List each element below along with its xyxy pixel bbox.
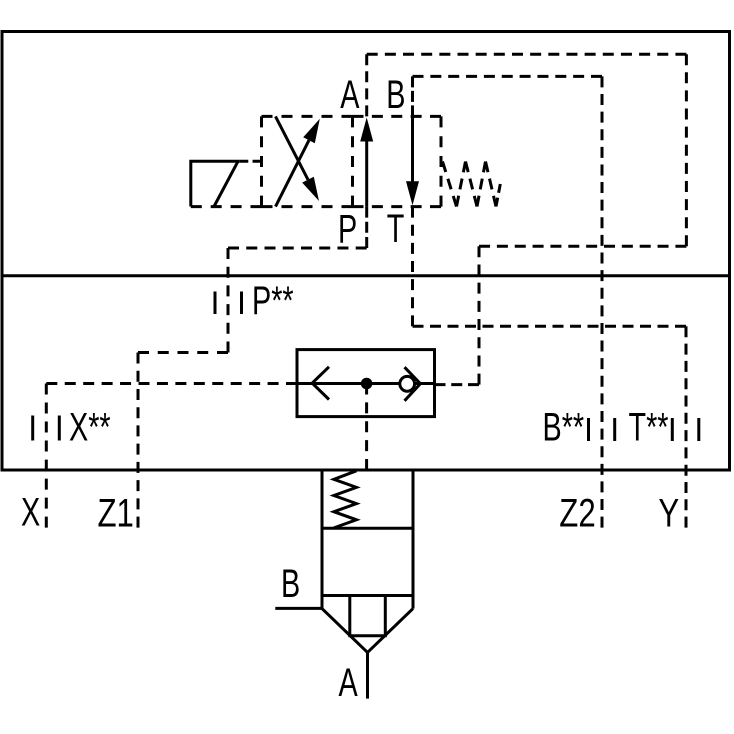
svg-text:T: T <box>387 206 405 251</box>
valve V1 arrow P to A <box>365 141 368 207</box>
port marks P** <box>215 292 242 315</box>
valve V1 arrow B to T <box>411 116 414 181</box>
check valve free-flow arrow <box>312 367 329 400</box>
port marks T** <box>672 418 699 441</box>
pilot line B: port B up, right, down to Z2 <box>413 76 603 527</box>
port marks B** <box>589 418 615 441</box>
svg-text:Z2: Z2 <box>559 491 595 536</box>
manifold plate divider line <box>2 274 730 277</box>
valve V1 return spring (dashed zigzag) <box>443 162 501 207</box>
manifold housing outline <box>2 32 730 471</box>
pilot line T: port T down, right, down to Y <box>413 207 687 528</box>
svg-text:Z1: Z1 <box>98 491 134 536</box>
valve V1 right square (parallel position) <box>353 116 442 206</box>
solenoid S1 to valve dashed links <box>191 161 262 206</box>
port A stub line <box>366 652 369 698</box>
valve V1 crossed arrow A to T <box>276 116 309 179</box>
logic valve poppet cone <box>322 596 413 653</box>
check valve ball <box>400 376 415 391</box>
svg-text:B**: B** <box>543 405 585 450</box>
logic cartridge valve LV1 body <box>322 470 413 609</box>
port B stub line <box>275 607 322 610</box>
check valve seat <box>405 367 421 401</box>
pilot line A: port A up, right, down, left, down to check valve <box>367 54 687 384</box>
svg-text:B: B <box>281 561 300 606</box>
pilot line P: port P down, left, down, left, down to Z1 <box>138 207 367 528</box>
svg-text:X**: X** <box>69 405 111 450</box>
check valve CV1 box <box>297 350 435 417</box>
svg-text:X: X <box>21 490 40 535</box>
svg-text:A: A <box>339 660 359 705</box>
logic valve spring <box>334 471 357 528</box>
junction node dot <box>361 378 373 390</box>
svg-text:P**: P** <box>252 278 294 323</box>
pilot tap from check valve node down to logic valve spring <box>365 384 368 471</box>
valve V1 left square (crossed position) <box>262 116 353 206</box>
svg-text:Y: Y <box>658 491 679 536</box>
solenoid S1 <box>191 161 240 206</box>
svg-text:B: B <box>386 72 405 117</box>
check valve through line <box>297 382 435 385</box>
svg-text:P: P <box>338 207 357 252</box>
pilot line X: from X port up and right to check valve <box>46 384 297 528</box>
svg-text:T**: T** <box>629 405 669 450</box>
port marks X** <box>33 416 60 441</box>
svg-text:A: A <box>340 72 360 117</box>
valve V1 crossed arrow P to B <box>276 140 310 206</box>
